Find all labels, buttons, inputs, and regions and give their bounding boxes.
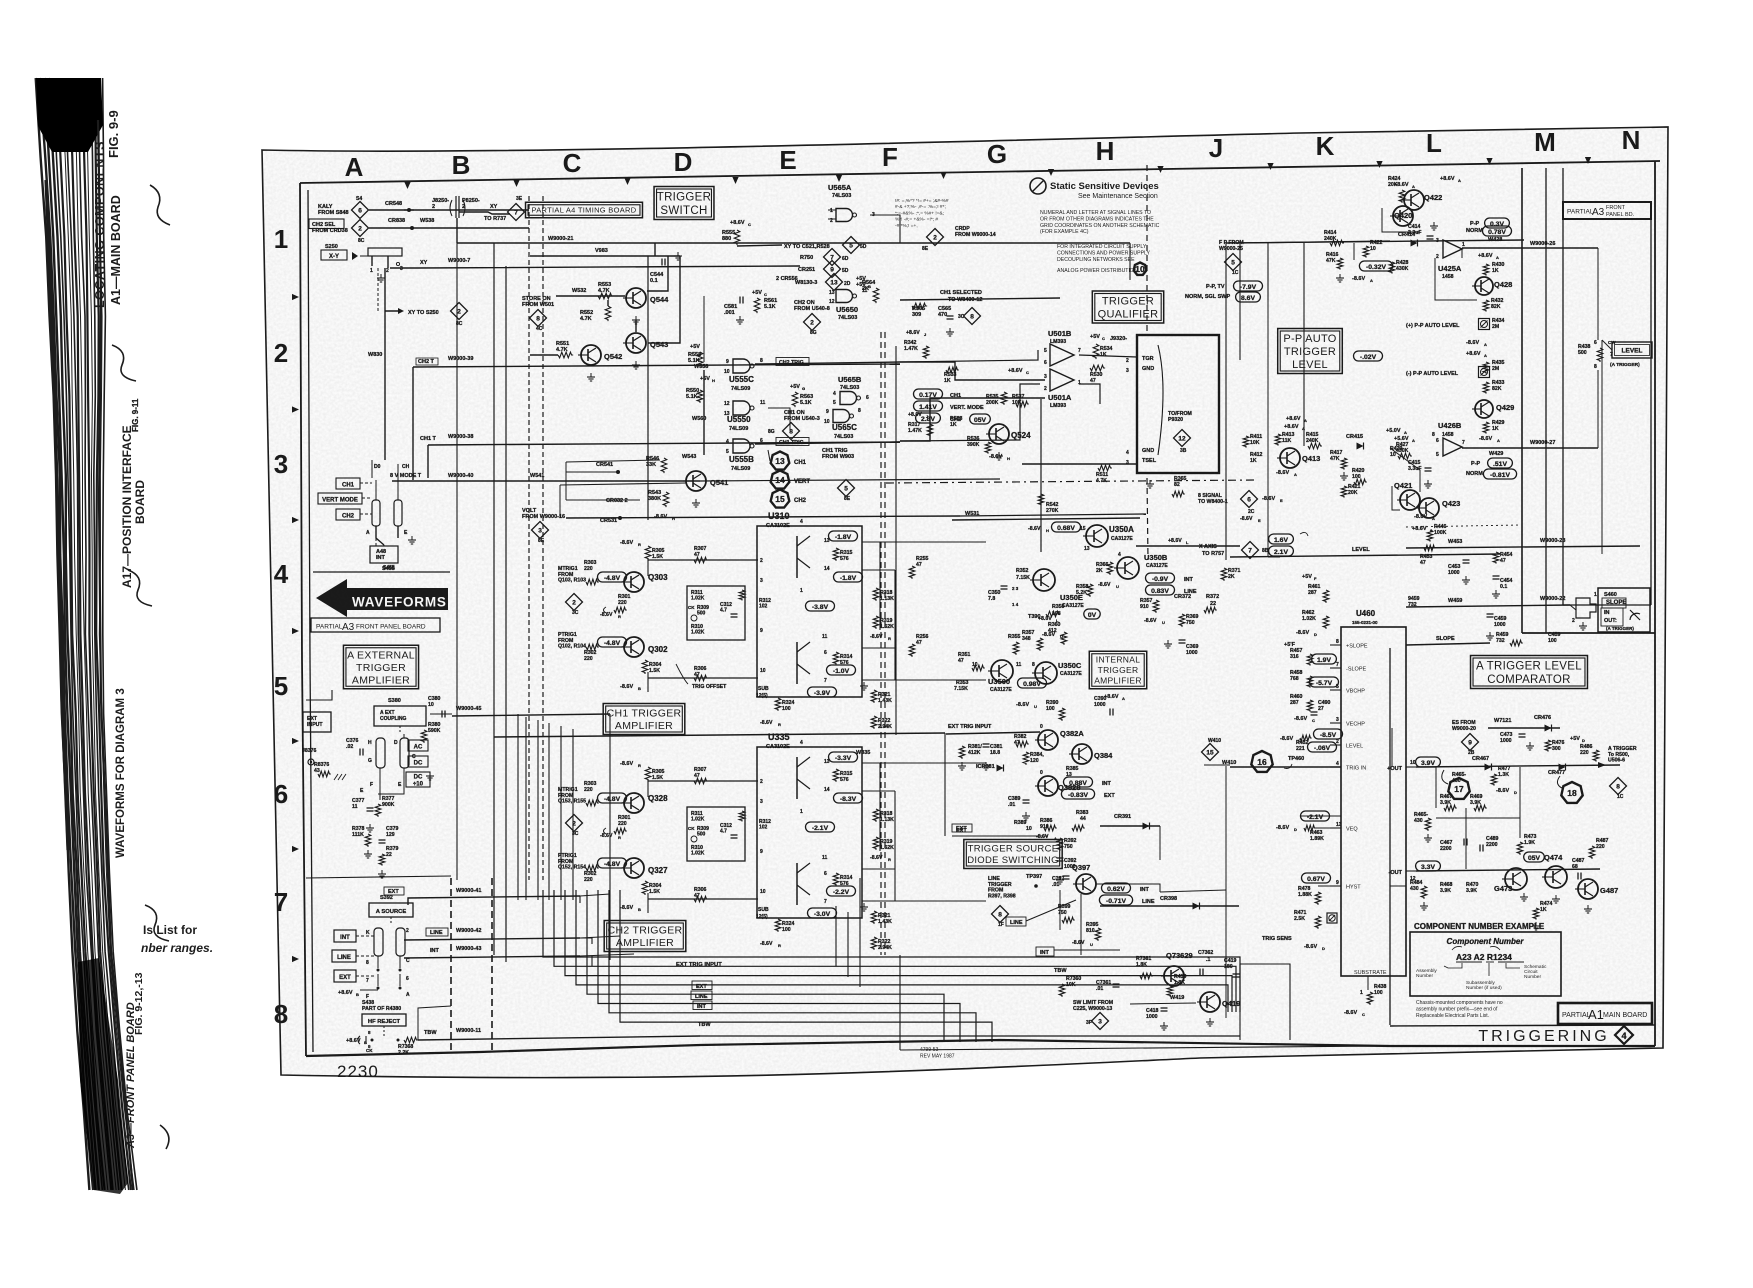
wire upper-left drop S250 [377,268,379,311]
transistor Q428 [1475,277,1493,295]
dashed board boundary F column b [884,332,886,955]
wire W459/W9000-22 [1406,605,1570,607]
resistor R306 47 (U335) [694,896,708,902]
transistor U350D [991,660,1013,682]
svg-text:A3—FRONT PANEL BOARD: A3—FRONT PANEL BOARD [125,1002,137,1149]
WAVEFORMS arrow [316,579,448,617]
transistor Q413 [1280,448,1300,468]
mode box DC/10 [406,772,430,787]
transistor Q384 [1072,744,1092,764]
resistor R307 47 (U310) [694,557,708,563]
transistor Q423 [1419,498,1439,518]
connector box P9320 [1137,335,1219,473]
wire W410 trig in [1230,766,1341,768]
transistor U350A [1086,525,1108,547]
wire right bus x1268 row2 [1267,243,1269,300]
component number example box [1410,932,1561,996]
wire C-D row3 h-wires [566,460,660,462]
wire FP row [1226,240,1524,243]
resistor R551 4.7K [558,352,573,358]
wire hyst [1318,885,1341,887]
wire Q541 base left [560,483,686,485]
ovals Q397 [1102,883,1131,893]
wire hf reject riser [418,1006,451,1040]
wire A column verticals row3-4 [371,460,373,478]
wire +out [1416,765,1620,767]
resistor R318 1.13K (U310) [873,588,879,601]
transistor Q543 [626,333,646,353]
wire EXT/LINE/INT long to bus verticals [580,894,610,896]
oval 3.9V (+out) [1416,757,1441,767]
ic U310 pair bottom [796,642,798,684]
wire Q543 collector [635,320,637,332]
transistor Q7362 [1164,966,1184,986]
hexagon 14 VERT [771,471,790,489]
oval 05V (Q474) [1524,852,1545,862]
resistor R319 1.62K (U310) [873,616,879,629]
grid column tick [513,180,519,187]
svg-text:A1—MAIN BOARD: A1—MAIN BOARD [109,195,123,305]
wire CH2 SEL [369,227,529,229]
svg-text:FIG. 9-9: FIG. 9-9 [106,110,121,158]
svg-text:LOCATING COMPONENTS: LOCATING COMPONENTS [93,141,107,308]
wire base row top (U310) [648,559,758,561]
ic U501A opamp [1050,369,1074,391]
voltage oval -4.8V a (U310) [598,572,627,582]
wire mid verticals below TSD [1080,894,1082,955]
wire Q544 collector [647,256,668,291]
ic U555D gate [733,401,750,415]
grid row tick [292,294,299,300]
resistor R322 2.94K (U310) [871,716,877,729]
oval -0.32V [1359,261,1392,271]
tiny ground row3 J [1149,480,1151,484]
oval 1.9V [1312,654,1337,664]
transistor Q397 [1076,874,1096,894]
wire base row bottom (U335) [648,898,758,900]
wire w9000-26 drop [1597,248,1599,340]
diamond 8 (A trigger) [1610,778,1627,795]
hexagon 13 CH1 [771,452,790,470]
wire trig level H lines [1390,885,1406,887]
wire F column CH1 to qualifier [900,398,1045,441]
wire W9000-45 [452,714,610,716]
transistor Q328 [624,793,644,813]
sheet number diamond 4 [1615,1026,1633,1044]
label box A EXTERNAL TRIGGER AMPLIFIER [343,645,418,689]
transistor Q382A [1038,730,1058,750]
A48 INT box [370,546,398,563]
label box P-P AUTO TRIGGER LEVEL [1278,329,1343,374]
label box TRIGGER QUALIFIER [1092,291,1163,323]
transistor Q303 [624,572,644,592]
transistor Q541 [686,471,706,491]
wire F column to qualifier [900,362,1045,380]
wire ext amp left border [306,690,332,700]
wire U335 out top [862,762,986,764]
wire EXT TRIG INPUT (right) [946,732,1040,734]
svg-text:nber ranges.: nber ranges. [141,941,213,955]
voltage oval (05V) [970,414,991,424]
resistor R558 5.1K [697,352,703,367]
label W335 [836,757,880,759]
grid row tick [292,738,299,744]
dashed board boundary F column a [880,332,882,955]
svg-text:WAVEFORMS FOR DIAGRAM 3: WAVEFORMS FOR DIAGRAM 3 [115,688,127,858]
wire D column vertical x648 [647,256,649,520]
voltage ovals ladder (U310) [829,531,858,541]
wire B column vertical 1 [493,243,495,955]
mode box AC [408,740,428,751]
wire VOLT [566,516,960,518]
scan noise overlay (decorative) [262,127,1668,1083]
transistor Q421 [1400,490,1420,510]
wire U335 out bottom [862,868,895,870]
wire P-P oval -.02V [1354,351,1383,361]
voltage oval -4.8V b (U335) [598,858,627,868]
wire level row4 from P-P cluster [1267,452,1269,557]
wire Q421 collector row [1390,448,1420,492]
mode box DC [408,756,428,767]
wire bus bundle bottom [543,890,1240,1012]
oval -8.5V [1314,729,1343,739]
wire comparator h [1436,817,1520,819]
vertical line M column left [1521,168,1523,633]
diamond 7 (R737) [508,204,525,221]
resistor R305 1.5K (U335) [645,767,651,781]
resistor R534 1K [1093,344,1099,359]
M column closing line [1522,632,1655,634]
wire CH2-T W9000-39 [413,364,900,367]
transistor U350C [1035,662,1057,684]
ic U555C gate [733,359,750,373]
label box PARTIAL A3 FRONT PANEL BD (top right) [1563,202,1651,219]
diamond 6 (KALY) [352,202,369,219]
ovals 1.6V 2.1V [1269,534,1294,544]
resistor R319 1.62K (U335) [873,837,879,850]
capacitor C544 [661,259,663,266]
transistor Q422 [1404,190,1424,210]
label box TRIGGER SOURCE DIODE SWITCHING [964,840,1062,869]
wire LINE W9000-42 [404,938,580,940]
ovals INT/EXT [1064,777,1093,787]
scan binding smudge (decorative) [36,78,90,1190]
svg-text:BOARD: BOARD [133,480,147,524]
wire U310 out top [862,541,986,543]
opamp U425A [1443,240,1462,258]
wire TBW W9000-11 [418,1036,700,1040]
ic U350B [1117,557,1139,579]
grid row tick [292,956,299,962]
wire opamp U501A out [1079,384,1100,404]
wire CH4 SELECTED [900,298,1060,300]
wire W560 vertical [703,370,705,455]
resistor R321 1.43K (U335) [871,911,877,924]
ic U310 pair top [796,536,798,578]
grid column tick [1376,161,1382,168]
resistor R322 2.94K (U335) [871,937,877,950]
ic U460 left pins [1330,644,1341,646]
grid column tick [404,182,410,189]
resistor R324 100 (U310) [775,698,781,711]
grid column tick [732,177,738,184]
hexagon 16 [1251,751,1272,772]
switch S380 contacts [376,738,385,768]
wire bus drops from W9000-41/42/43 [579,896,581,903]
wire EXT drop [944,733,946,836]
grid row tick [292,628,299,634]
connector plug W9000-22 [1576,598,1596,618]
schematic content left edge [308,190,313,1052]
resistor R321 1.43K (U310) [871,690,877,703]
ic U565D gate [836,290,853,303]
wire CR391/CR396 right drops [1159,826,1161,860]
transistor Q327 [624,858,644,878]
wire row6 box outline [306,876,451,878]
ground (U335 lu) [863,903,865,907]
wire left column down to ext input [305,700,307,1056]
wire XY TO C521,R528 [737,245,782,246]
margin squiggle 4 [145,905,169,941]
wire INT W9000-43 [404,956,580,958]
switch S392 contacts [374,928,383,956]
resistor R550 5.1K [697,390,703,403]
wire U310 right verticals [894,570,896,680]
dashed V MODE drop [397,486,399,493]
margin squiggle 5 [160,1125,169,1149]
voltage oval -4.8V a (U335) [598,793,627,803]
wire qualifier out row3 [1079,355,1137,357]
grid column tick [1267,163,1273,170]
wire amp outputs drop a [835,906,837,966]
oval 3.3V (-out) [1416,861,1441,871]
wire gates to hex13 [768,450,770,461]
transistor U350E top [1033,569,1055,591]
diamond 2 (CH2 SEL) [352,220,369,237]
grid column tick [836,175,842,182]
inner border left line [300,183,306,1056]
oval -.06V [1308,742,1337,752]
voltage ovals CH1/VERT/CH2 [914,389,943,399]
resistor R314 576 (U335) [833,873,839,886]
label box INTERNAL TRIGGER AMPLIFIER [1089,651,1146,689]
wire S380 bottom to C377 [379,778,381,800]
wire -out [1416,869,1600,871]
grid column tick [624,178,630,185]
feedback wire U425A [1435,258,1477,300]
hexagon 17 [1448,778,1469,799]
grid column tick [1585,157,1591,164]
wire XY W9000-7 [390,266,800,268]
resistor R315 576 (U335) [833,769,839,782]
transistor Q524 [989,424,1009,444]
wire w9000-45 drop [609,714,611,960]
wire W531 [952,518,1140,520]
oval -5.7V [1310,677,1339,687]
resistor R324 100 (U335) [775,919,781,932]
margin squiggle 2 [112,345,136,381]
inner border top line [300,161,1660,183]
resistor R304 1.5K (U335) [642,881,648,895]
wire U335 right verticals [894,791,896,901]
vertical line N column left (A3 panel) [1562,219,1564,605]
grid column tick [1486,158,1492,165]
grid row tick [292,517,299,523]
grid column tick [1157,166,1163,173]
diamond 2 (U310 a) [566,594,583,611]
margin squiggle 1 [150,185,170,225]
wire to R737 [459,212,510,214]
diamond 2 (U335 a) [566,815,583,832]
grid column tick [940,172,946,179]
grid row tick [292,406,299,412]
ic U555B gate [733,439,750,453]
wire K column vertical x1240 [1239,243,1241,360]
resistor R306 47 (U310) [694,675,708,681]
svg-text:A17—POSITION INTERFACE: A17—POSITION INTERFACE [120,425,134,588]
label box PARTIAL A3 FRONT PANEL BOARD (row4) [311,618,440,632]
wire bus right drops [899,955,901,1050]
switch S460 SLOPE box [1598,588,1650,632]
resistor R7388 2.2K [404,1037,418,1043]
wire VERT switch to A48 [383,545,385,546]
wire base row bottom (U310) [648,677,758,679]
TRIGGERING strip top line [1390,1025,1655,1026]
resistor R552 4.7K [605,306,611,321]
dashed separator row5/6 right [1406,525,1520,527]
ground (U310 lu) [863,682,865,686]
sheet outer edge [262,127,1668,1078]
wire CH1 TRIG long [900,384,1040,441]
resistor R307 47 (U335) [694,778,708,784]
resistor R555 880 [734,230,740,245]
node box CH2 [336,509,360,520]
wire qualifier TSEL [1022,463,1137,465]
node box LINE [332,950,356,962]
oval 0.67V [1302,873,1331,883]
ic U335 pair bottom [796,863,798,905]
wire w9000-21 bend down at 1130 [1129,243,1131,280]
wire W9000-45 from S380 [430,713,452,715]
wire bus verticals (row6-8) [517,714,519,900]
label box CH2 TRIGGER AMPLIFIER [604,921,686,952]
wire X axis [1136,545,1240,547]
vertical line M column right [1545,168,1547,633]
resistor R553 4.7K [598,293,613,299]
transistor Q429 [1475,400,1493,418]
wire W9000-21 [457,242,1130,244]
voltage oval -4.8V b (U310) [598,637,627,647]
grid column tick [1048,169,1054,176]
vertical line comparator left edge [1389,648,1391,1025]
wire F column solid x896 [895,346,897,735]
wire B-V MODE-T W9000-40 [392,480,700,482]
A3 panel region bottom [1563,604,1651,606]
wire B column vertical 2 [505,266,507,962]
dashed board edge lower left a [450,878,452,1052]
wire CH2 TRIG long [900,350,1038,362]
label LEVEL box (front panel) [1612,342,1652,358]
node box INT [334,930,356,942]
wire above waveforms arrow [313,571,450,573]
grid row tick [292,846,299,852]
transistor Q420 [1393,206,1413,226]
transistor Q487 [1578,879,1598,899]
transistor Q382B [1038,776,1058,796]
node box VERT MODE [318,493,362,504]
wire W9000-26 [1462,247,1598,249]
wire veq [1300,816,1341,828]
dashed board boundary row3/4 horizontal [886,480,1258,483]
voltage ovals ladder (U335) [829,752,858,762]
wire TSD to W410 [1160,890,1226,892]
transistor Q542 [581,345,601,365]
label box TRIGGER SWITCH [654,187,714,220]
resistor R305 1.5K (U310) [645,546,651,560]
wire KALY [369,209,529,211]
dashed connector column P8250 [542,196,544,880]
wire comparator +out verticals [1519,767,1521,838]
resistor R318 1.13K (U335) [873,809,879,822]
wire TBW long [700,1035,1240,1037]
wire VOLT long [960,514,1146,516]
wire R438 top link [1601,340,1603,362]
wire W453/W9000-23 [1406,546,1640,548]
resistor R314 576 (U310) [833,652,839,665]
wire Q397 collector [1096,884,1160,892]
wire Q420 box [1382,208,1420,232]
wire w9000-22 plug link [1570,605,1576,610]
margin squiggle 3 [128,570,152,606]
ic U335 pair top [796,757,798,799]
wire w9000-27 drop [1597,370,1599,448]
wire CH1 TRIG [755,442,900,444]
inner border bottom line [306,1040,1655,1056]
transistor Q473 [1505,868,1527,890]
inner border right line [1654,161,1656,1046]
resistor R315 576 (U310) [833,548,839,561]
voltage oval (0.98V) [1018,678,1047,688]
transistor Q419 [1200,992,1220,1012]
resistor R511 4.7K [1098,465,1112,471]
node box EXT [334,970,356,982]
resistor R304 1.5K (U310) [642,660,648,674]
wire store-on [556,295,625,297]
wire J column vertical x1226 [1225,243,1227,560]
wire fp drop to Q413 [1303,243,1305,300]
transistor Q302 [624,637,644,657]
label box PARTIAL A4 TIMING BOARD [526,202,643,218]
wire base row top (U335) [648,780,758,782]
wire E column vertical x704 [703,296,705,362]
resistor R530 47 [1090,365,1105,371]
node EXT INPUT J8376 [303,712,331,732]
wire comparator to U460 +out link [1405,760,1407,767]
dashed board edge lower left b [491,878,493,1052]
capacitor C438 [358,1036,360,1044]
wire U310 out bottom [862,647,895,649]
label box CH1 TRIGGER AMPLIFIER [603,704,685,735]
wire V MODE long [700,479,1000,481]
vertical wire K column x1268 [1267,300,1269,452]
wire XY TO S250 [385,310,402,312]
hexagon 18 [1561,782,1582,803]
wire LEVEL long [1230,554,1500,557]
wire hex16 stub [1204,764,1230,766]
wire EXT W9000-41 [408,896,580,905]
label box PARTIAL A1 MAIN BOARD [1558,1003,1652,1024]
wire top U565A out [870,215,900,243]
